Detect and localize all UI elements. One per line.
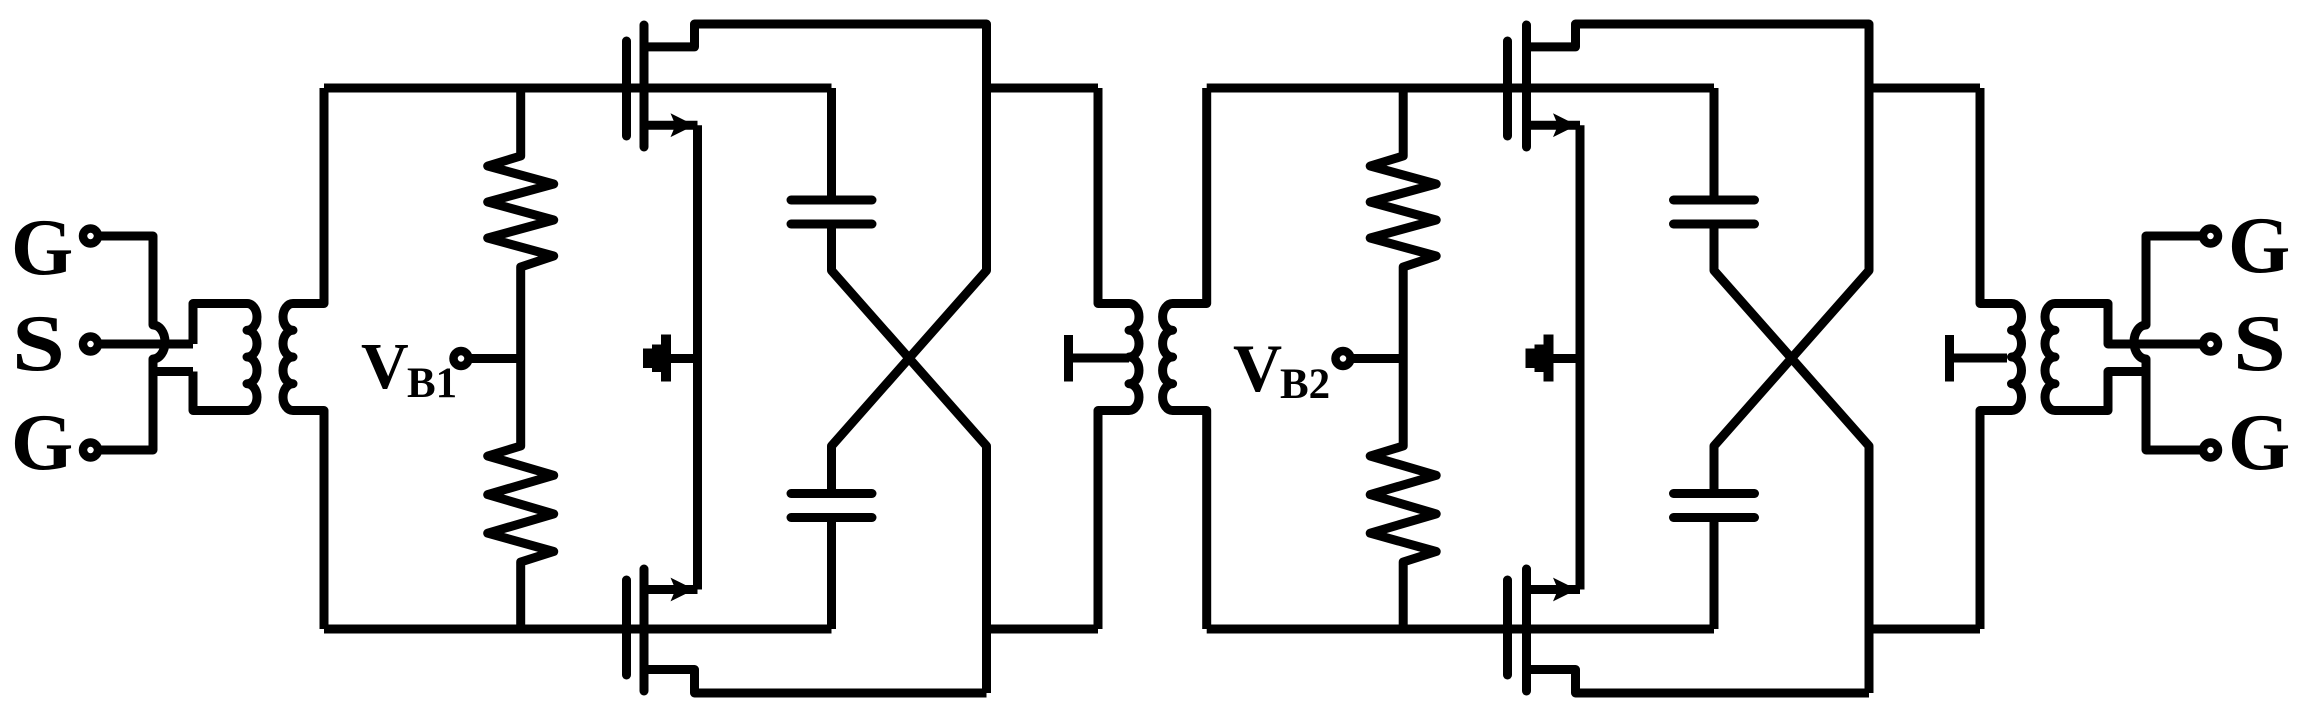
- source tap stub stage 2 (stepped bars): [1526, 349, 1535, 369]
- wire common source line stage 1: [693, 125, 702, 589]
- port G (input top ground pad): [83, 229, 98, 244]
- capacitor C3 plate: [1674, 196, 1755, 205]
- wire C2 to bottom gate rail: [827, 518, 836, 630]
- wire M2 drain to bottom rail stage 1: [644, 670, 987, 694]
- wire M3 drain to top rail, down right side and cross diagonal to bottom-left: [1527, 24, 1870, 494]
- capacitor C3 plate: [1674, 220, 1755, 229]
- node VB2 terminal: [1336, 351, 1351, 366]
- transformer T3 center tap bar: [1945, 335, 1954, 382]
- capacitor C1 plate: [791, 220, 872, 229]
- wire C1 to cross diagonal down-right: [832, 224, 987, 693]
- resistor R1 and resistor R2 bias divider stage 1: [488, 88, 554, 629]
- capacitor C1 top plate chain with cross diagonal to bottom-right: [827, 88, 836, 200]
- transistor M2 channel bar: [640, 569, 649, 691]
- wire source tap lead stage 2: [1549, 354, 1581, 363]
- transformer T3 primary winding: [1980, 88, 2022, 629]
- wire S input line: [97, 340, 193, 349]
- wire primary ground link: [153, 367, 193, 376]
- capacitor C1 plate: [791, 196, 872, 205]
- transistor M3 source arrow: [1553, 113, 1577, 137]
- transformer T3 secondary winding: [2045, 304, 2204, 411]
- wire T2 center tap lead: [1069, 354, 1130, 363]
- transistor M1 source arrow: [671, 113, 695, 137]
- wire bottom gate rail stage 1: [324, 625, 832, 634]
- svg-text:G: G: [2228, 399, 2290, 487]
- capacitor C4 plate: [1674, 489, 1755, 498]
- transformer T2 center tap bar: [1064, 335, 1073, 382]
- wire ground bus left (G-to-G with hop over S line): [97, 236, 165, 450]
- wire M1 source lead: [644, 121, 698, 130]
- resistor R3 and resistor R4 bias divider stage 2: [1370, 88, 1436, 629]
- transistor M4 channel bar: [1522, 569, 1531, 691]
- wire VB2 to divider: [1350, 354, 1403, 363]
- port G (input bottom ground pad): [83, 443, 98, 458]
- svg-text:V: V: [361, 330, 409, 403]
- wire drain node to transformer T3 top: [1869, 84, 1980, 93]
- wire M1 drain to top rail, down right side and cross diagonal to bottom-left: [644, 24, 987, 494]
- wire drain node to transformer T3 bottom: [1869, 625, 1980, 634]
- capacitor C3 top plate chain stage 2: [1710, 88, 1719, 200]
- transistor M4 source arrow: [1553, 578, 1577, 602]
- transformer T2 right winding: [1163, 88, 1207, 629]
- wire M4 source lead: [1527, 585, 1581, 594]
- wire C4 to bottom gate rail stage 2: [1710, 518, 1719, 630]
- port G (output bottom ground pad): [2203, 443, 2218, 458]
- node VB1 terminal: [454, 351, 469, 366]
- svg-text:V: V: [1233, 330, 1282, 406]
- svg-text:S: S: [12, 300, 65, 388]
- capacitor C2 plate: [791, 513, 872, 522]
- capacitor C4 plate: [1674, 513, 1755, 522]
- transistor M1 gate bar: [622, 41, 631, 136]
- wire VB1 to divider: [468, 354, 521, 363]
- svg-text:G: G: [11, 204, 73, 292]
- svg-text:G: G: [2228, 202, 2290, 290]
- transformer T1 primary winding: [193, 304, 257, 411]
- transformer T2 left winding: [1098, 88, 1139, 629]
- wire M2 source lead: [644, 585, 698, 594]
- transformer T1 secondary winding: [283, 88, 324, 629]
- wire M4 drain to bottom rail stage 2: [1527, 670, 1870, 694]
- wire M3 source lead: [1527, 121, 1581, 130]
- transistor M2 gate bar: [622, 580, 631, 675]
- wire top gate rail stage 1: [324, 84, 832, 93]
- wire T3 center tap lead: [1950, 354, 2008, 363]
- transistor M2 source arrow: [671, 578, 695, 602]
- transistor M1 channel bar: [640, 25, 649, 147]
- svg-text:G: G: [11, 399, 73, 487]
- wire drain node to transformer T2 bottom: [987, 625, 1099, 634]
- wire ground bus right (G-to-G with hop over S line): [2134, 236, 2204, 450]
- svg-text:S: S: [2233, 300, 2286, 388]
- port S (input signal pad): [83, 337, 98, 352]
- wire common source line stage 2: [1576, 125, 1585, 589]
- wire top gate rail stage 2: [1207, 84, 1714, 93]
- wire source tap lead stage 1: [666, 354, 698, 363]
- svg-text:B2: B2: [1280, 361, 1330, 408]
- wire bottom gate rail stage 2: [1207, 625, 1714, 634]
- port G (output top ground pad): [2203, 229, 2218, 244]
- transistor M3 channel bar: [1522, 25, 1531, 147]
- transistor M3 gate bar: [1503, 41, 1512, 136]
- source tap stub stage 1 (stepped bars): [643, 349, 652, 369]
- svg-text:B1: B1: [407, 360, 457, 407]
- wire drain node to transformer T2 top: [987, 84, 1099, 93]
- capacitor C2 plate: [791, 489, 872, 498]
- port S (output signal pad): [2203, 337, 2218, 352]
- wire C3 to cross diagonal down-right stage 2: [1714, 224, 1869, 693]
- transistor M4 gate bar: [1503, 580, 1512, 675]
